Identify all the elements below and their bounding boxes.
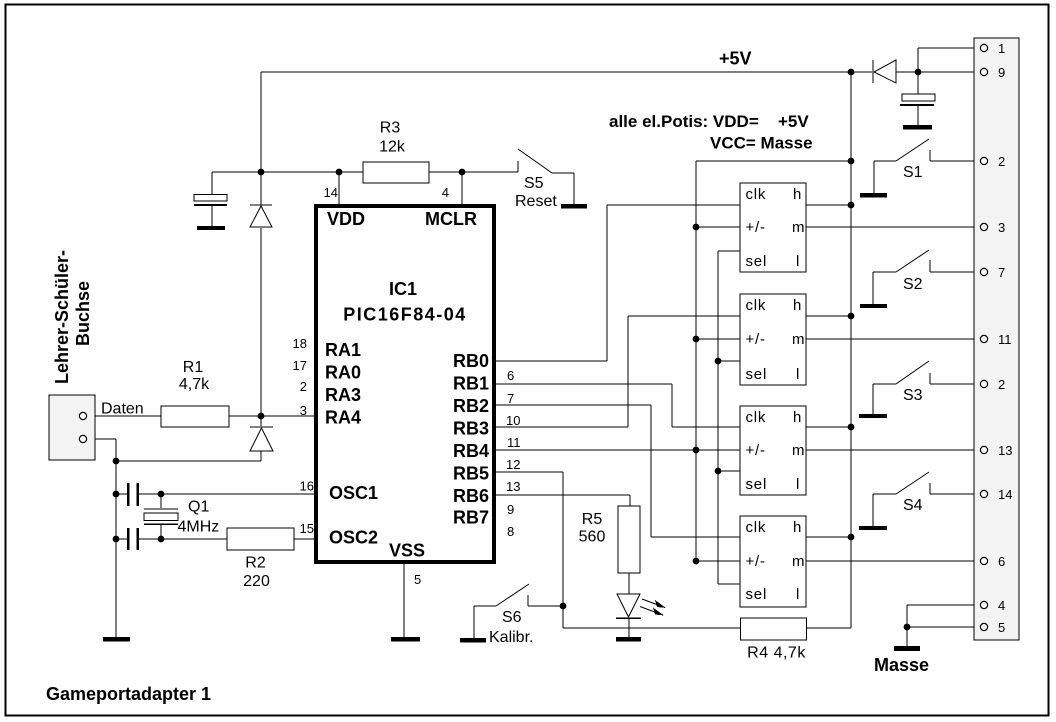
svg-text:h: h — [793, 297, 802, 314]
svg-text:R4 4,7k: R4 4,7k — [747, 645, 806, 662]
svg-text:+/-: +/- — [746, 553, 766, 570]
svg-text:+/-: +/- — [746, 442, 766, 459]
svg-text:7: 7 — [998, 265, 1005, 280]
svg-text:RB5: RB5 — [453, 464, 489, 484]
svg-text:Reset: Reset — [515, 193, 557, 210]
svg-text:13: 13 — [506, 479, 520, 494]
svg-text:10: 10 — [506, 413, 520, 428]
svg-text:560: 560 — [579, 529, 606, 546]
svg-text:2: 2 — [300, 379, 307, 394]
svg-text:RB1: RB1 — [453, 374, 489, 394]
svg-text:13: 13 — [998, 443, 1012, 458]
svg-text:l: l — [796, 476, 800, 493]
svg-text:RA0: RA0 — [325, 363, 361, 383]
svg-text:+5V: +5V — [719, 49, 752, 69]
svg-text:clk: clk — [746, 186, 767, 203]
svg-text:14: 14 — [324, 185, 338, 200]
svg-text:OSC2: OSC2 — [329, 528, 378, 548]
svg-text:R1: R1 — [183, 359, 204, 376]
svg-text:S2: S2 — [903, 276, 923, 293]
svg-text:RA4: RA4 — [325, 408, 361, 428]
svg-text:S6: S6 — [502, 609, 522, 626]
svg-text:Q1: Q1 — [188, 499, 209, 516]
svg-text:VSS: VSS — [389, 541, 425, 561]
svg-text:12: 12 — [506, 457, 520, 472]
svg-text:2: 2 — [998, 377, 1005, 392]
svg-text:l: l — [796, 253, 800, 270]
svg-text:+/-: +/- — [746, 331, 766, 348]
svg-text:S4: S4 — [903, 497, 923, 514]
svg-text:Lehrer-Schüler-: Lehrer-Schüler- — [52, 250, 72, 384]
svg-text:18: 18 — [293, 336, 307, 351]
svg-text:9: 9 — [507, 502, 514, 517]
svg-text:+/-: +/- — [746, 219, 766, 236]
svg-text:6: 6 — [507, 368, 514, 383]
svg-text:m: m — [792, 553, 805, 570]
svg-text:9: 9 — [998, 65, 1005, 80]
svg-text:Masse: Masse — [874, 655, 929, 675]
svg-text:2: 2 — [998, 154, 1005, 169]
svg-text:RB2: RB2 — [453, 396, 489, 416]
svg-text:4MHz: 4MHz — [178, 519, 220, 536]
svg-text:l: l — [796, 586, 800, 603]
svg-text:RB0: RB0 — [453, 351, 489, 371]
svg-text:17: 17 — [293, 358, 307, 373]
svg-text:h: h — [793, 186, 802, 203]
svg-text:220: 220 — [243, 573, 270, 590]
svg-text:R2: R2 — [245, 555, 266, 572]
svg-text:S3: S3 — [903, 387, 923, 404]
svg-text:clk: clk — [746, 409, 767, 426]
svg-text:m: m — [792, 331, 805, 348]
svg-text:4: 4 — [998, 598, 1005, 613]
svg-text:l: l — [796, 366, 800, 383]
svg-text:1: 1 — [998, 41, 1005, 56]
svg-text:h: h — [793, 409, 802, 426]
svg-text:4,7k: 4,7k — [179, 376, 210, 393]
svg-text:alle el.Potis: VDD=: alle el.Potis: VDD= — [609, 112, 759, 131]
svg-text:15: 15 — [300, 521, 314, 536]
svg-text:11: 11 — [998, 332, 1012, 347]
svg-text:RB3: RB3 — [453, 419, 489, 439]
svg-text:16: 16 — [300, 479, 314, 494]
svg-text:12k: 12k — [379, 139, 406, 156]
svg-text:R3: R3 — [380, 120, 401, 137]
svg-text:Gameportadapter 1: Gameportadapter 1 — [46, 684, 211, 704]
svg-text:3: 3 — [300, 403, 307, 418]
svg-text:PIC16F84-04: PIC16F84-04 — [343, 305, 467, 325]
svg-text:m: m — [792, 219, 805, 236]
svg-text:sel: sel — [746, 253, 768, 270]
svg-text:R5: R5 — [582, 511, 603, 528]
svg-text:RB6: RB6 — [453, 486, 489, 506]
svg-text:Buchse: Buchse — [73, 281, 93, 346]
svg-text:sel: sel — [746, 586, 768, 603]
svg-text:m: m — [792, 442, 805, 459]
svg-text:OSC1: OSC1 — [329, 483, 378, 503]
svg-text:3: 3 — [998, 220, 1005, 235]
svg-text:5: 5 — [414, 572, 421, 587]
svg-text:sel: sel — [746, 476, 768, 493]
svg-text:Daten: Daten — [101, 401, 144, 418]
svg-text:VCC= Masse: VCC= Masse — [710, 134, 813, 153]
svg-text:RB7: RB7 — [453, 508, 489, 528]
svg-text:IC1: IC1 — [389, 279, 417, 299]
svg-text:RA3: RA3 — [325, 385, 361, 405]
svg-text:Kalibr.: Kalibr. — [489, 629, 533, 646]
svg-text:RB4: RB4 — [453, 441, 489, 461]
svg-text:clk: clk — [746, 297, 767, 314]
svg-text:S5: S5 — [524, 175, 544, 192]
svg-text:MCLR: MCLR — [425, 209, 477, 229]
svg-text:7: 7 — [507, 391, 514, 406]
svg-text:VDD: VDD — [327, 209, 365, 229]
svg-text:6: 6 — [998, 554, 1005, 569]
svg-text:11: 11 — [507, 435, 521, 450]
svg-text:h: h — [793, 519, 802, 536]
svg-text:5: 5 — [998, 620, 1005, 635]
svg-text:4: 4 — [442, 185, 449, 200]
svg-text:+5V: +5V — [778, 112, 809, 131]
svg-text:8: 8 — [507, 524, 514, 539]
svg-text:sel: sel — [746, 366, 768, 383]
svg-text:clk: clk — [746, 519, 767, 536]
svg-text:RA1: RA1 — [325, 340, 361, 360]
svg-text:S1: S1 — [903, 164, 923, 181]
svg-text:14: 14 — [998, 487, 1012, 502]
